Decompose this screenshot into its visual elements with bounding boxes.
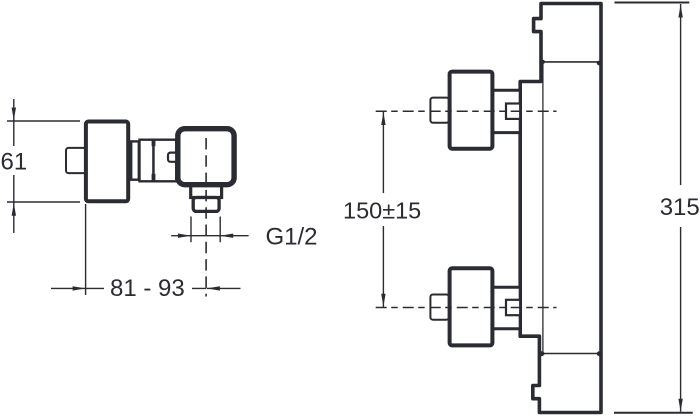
- arrowhead G1/2 right: [220, 234, 233, 238]
- centerline (side view, dashed): [205, 138, 207, 297]
- junction nub bottom (side view): [152, 174, 156, 181]
- upper nut square (front view): [506, 104, 520, 119]
- neck piece (side view): [140, 140, 154, 182]
- arrowhead 150 bottom: [381, 294, 385, 307]
- seam nub top-right: [597, 61, 602, 66]
- lower nut square (front view): [506, 300, 520, 315]
- lower connector piece (front view): [492, 287, 520, 329]
- junction nub top (side view): [152, 139, 156, 146]
- lower knob (front view): [450, 268, 493, 345]
- seam nub top-left: [539, 60, 545, 65]
- handle knob (side view): [86, 122, 128, 202]
- seam nub bottom-left: [539, 351, 545, 356]
- inner thin vertical line (front view): [542, 62, 544, 353]
- svg-text:150±15: 150±15: [343, 198, 421, 224]
- seam line bottom (front view): [539, 353, 602, 355]
- text mask 81-93: [104, 274, 192, 300]
- extension line 315 top: [615, 2, 690, 4]
- dimension line 315: [680, 4, 682, 412]
- outlet step 1 (side view): [191, 184, 222, 198]
- dimension line 61: [13, 99, 15, 233]
- G1/2 dimension line: [171, 235, 248, 237]
- arrowhead 315 bottom: [678, 399, 682, 412]
- upper knob (front view): [450, 72, 493, 149]
- mixer bar body (front view): [520, 4, 601, 413]
- svg-text:G1/2: G1/2: [266, 224, 318, 251]
- lower centerline (front view, dash-dot): [376, 307, 557, 309]
- arrowhead 315 top: [678, 5, 682, 18]
- dimension line 81-93: [51, 287, 206, 289]
- handle stem (side view): [66, 148, 86, 173]
- upper centerline (front view, dash-dot): [376, 110, 557, 112]
- arrowhead 61 top: [12, 108, 16, 121]
- extension line top of 61 dim: [7, 120, 80, 122]
- small side tab (side view): [168, 153, 178, 162]
- svg-text:315: 315: [660, 194, 700, 221]
- spout block (side view): [178, 129, 234, 185]
- lower stem (front view): [430, 295, 449, 320]
- arrowhead 81-93 right with tail: [207, 287, 241, 289]
- collar piece (side view): [131, 141, 139, 179]
- extension line below knob: [85, 204, 87, 295]
- arrowhead 81-93 left: [73, 286, 86, 290]
- G1/2 extension line right: [219, 217, 221, 243]
- G1/2 extension line left: [190, 217, 192, 243]
- upper connector piece (front view): [492, 90, 520, 132]
- arrowhead 61 bottom: [12, 203, 16, 216]
- body piece (side view): [154, 140, 177, 182]
- extension line 315 bottom: [614, 412, 693, 414]
- seam nub bottom-right: [597, 351, 602, 356]
- seam line top (front view): [541, 61, 602, 63]
- upper stem (front view): [430, 98, 449, 123]
- arrowhead G1/2 left: [178, 234, 191, 238]
- svg-text:61: 61: [1, 148, 28, 175]
- arrowhead 150 top: [381, 112, 385, 125]
- svg-text:81 - 93: 81 - 93: [110, 275, 185, 302]
- outlet step 2 (side view): [193, 198, 219, 212]
- extension line bottom of 61 dim: [7, 201, 80, 203]
- dimension line 150±15: [382, 111, 384, 307]
